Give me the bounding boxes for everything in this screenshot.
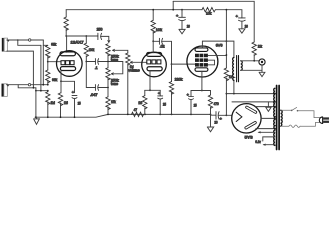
resistor 68k (input 1) xyxy=(46,45,50,58)
resistor 10k (series in rail) xyxy=(202,7,215,11)
wire 100k bottom down to .047 xyxy=(86,62,95,88)
resistor 100k (V1b plate) xyxy=(152,10,154,21)
plate bars 5Y3 xyxy=(246,107,256,128)
svg-text:6V6: 6V6 xyxy=(216,42,223,47)
svg-text:1k: 1k xyxy=(229,74,232,79)
capacitor 250 xyxy=(98,33,102,39)
ground bus right xyxy=(108,113,211,115)
svg-text:15k: 15k xyxy=(111,99,116,104)
capacitor 25 (6V6 cathode) xyxy=(189,97,194,100)
ground symbol (filter A) xyxy=(179,29,185,33)
capacitor 20 (filter B) xyxy=(239,18,246,21)
capacitor 20 (filter A) xyxy=(181,9,183,11)
svg-text:.1: .1 xyxy=(95,65,98,70)
ground bus left xyxy=(35,114,108,117)
svg-text:1M: 1M xyxy=(51,100,56,105)
capacitor 20 (first filter) xyxy=(211,114,217,116)
resistor 22k (feedback) xyxy=(252,42,256,55)
wire 5Y3 plate 2 xyxy=(256,128,275,130)
switch (mains) xyxy=(281,107,321,117)
wire pot column down xyxy=(107,88,109,97)
wiper volume xyxy=(130,61,146,63)
potentiometer 1M volume xyxy=(126,53,130,65)
svg-text:68k: 68k xyxy=(51,41,56,46)
wire B+ top rail left section xyxy=(66,9,202,11)
rectifier tube 5Y3 xyxy=(232,104,261,133)
capacitor .1 xyxy=(95,59,98,65)
wire V1a plate column xyxy=(65,10,67,17)
svg-text:100k: 100k xyxy=(156,27,162,32)
resistor 1k5 (V1b cathode) xyxy=(143,96,147,109)
tube V1b 12AX7 xyxy=(142,52,167,77)
wire 6V6 cathode xyxy=(201,71,203,90)
input jack 1 xyxy=(2,38,48,91)
ground symbol (input bus) xyxy=(34,117,40,124)
filament chevron 5Y3 xyxy=(236,112,242,121)
wire plate node to 250 cap xyxy=(66,35,98,37)
node plate V1a xyxy=(65,35,67,37)
PT secondary loops xyxy=(274,88,275,107)
wiper lower pot xyxy=(111,62,122,74)
wire 5Y3 filament right xyxy=(261,117,275,119)
node 6V6 grid xyxy=(171,63,173,65)
wire B+ to PT xyxy=(226,93,275,95)
resistor screen 1k xyxy=(224,68,228,81)
resistor 68k (input 2) xyxy=(47,62,49,70)
capacitor .047 xyxy=(95,85,98,91)
svg-text:25: 25 xyxy=(194,103,197,108)
wire heater lead 1 xyxy=(258,131,275,133)
resistor 220k (6V6 grid leak) xyxy=(171,64,173,81)
svg-text:220k: 220k xyxy=(175,76,183,81)
AC plug xyxy=(319,117,329,124)
fuse xyxy=(281,123,321,128)
svg-text:5Y3: 5Y3 xyxy=(245,135,253,140)
PT primary loops xyxy=(281,110,283,126)
svg-text:.02: .02 xyxy=(160,44,165,49)
speaker jack xyxy=(259,59,265,65)
wire OT secondary to jack xyxy=(241,60,259,62)
wire screen riser xyxy=(225,10,227,68)
resistor 47 (in bus) xyxy=(132,112,144,116)
wire 6V6 plate to OT xyxy=(202,41,234,57)
svg-text:volume: volume xyxy=(128,68,140,73)
wire top feedback rail xyxy=(173,1,254,42)
resistor 100k plate load V1a xyxy=(64,17,68,30)
wire 250 cap to tone pot top xyxy=(101,36,109,42)
ground symbol (main bus end) xyxy=(207,114,213,131)
svg-text:1k5: 1k5 xyxy=(138,100,142,105)
tube 6V6 xyxy=(187,46,218,77)
svg-text:68k: 68k xyxy=(52,77,57,82)
potentiometer 250k tone (upper) xyxy=(106,44,110,56)
wire heater mid xyxy=(263,137,275,141)
svg-text:47: 47 xyxy=(134,107,138,112)
ground symbol (filter B) xyxy=(239,29,245,33)
svg-text:100k: 100k xyxy=(89,47,95,52)
output transformer xyxy=(233,56,243,82)
capacitor 25 (V1b cathode bypass) xyxy=(158,96,163,99)
wire V1b cathode xyxy=(149,71,151,91)
resistor 1k5 (V1a cathode) xyxy=(58,93,62,106)
svg-text:6.3v: 6.3v xyxy=(255,139,261,144)
ground symbol (HV center) xyxy=(266,102,271,112)
resistor 1M (grid leak input2) xyxy=(47,91,49,92)
resistor 470 (6V6 cathode) xyxy=(208,95,212,108)
node grid V1a xyxy=(47,61,49,63)
svg-text:22k: 22k xyxy=(258,43,262,48)
resistor 100k (V1a) xyxy=(85,36,87,43)
svg-text:12AX7: 12AX7 xyxy=(71,39,84,44)
wire HV upper to PT xyxy=(232,101,275,103)
wire 5Y3 plate 1 xyxy=(255,106,275,108)
PT core xyxy=(277,86,280,150)
svg-text:470: 470 xyxy=(214,101,220,106)
power transformer xyxy=(274,86,283,150)
potentiometer 250k (lower) xyxy=(107,62,109,68)
capacitor .02 (coupling) xyxy=(153,40,159,42)
ground symbol (speaker jack) xyxy=(259,72,265,76)
wire B+ top rail right section xyxy=(215,10,242,18)
svg-text:tone: tone xyxy=(111,81,118,86)
svg-text:1k5: 1k5 xyxy=(64,100,68,105)
capacitor 25 (V1a cathode bypass) xyxy=(72,95,77,98)
wiper tone pot xyxy=(113,50,128,53)
svg-text:250: 250 xyxy=(97,27,104,32)
svg-text:25: 25 xyxy=(163,102,166,107)
input jack 2 xyxy=(2,84,49,97)
wire tone bus y61.5 xyxy=(86,61,95,63)
resistor 15k xyxy=(106,97,110,110)
svg-text:25: 25 xyxy=(78,100,81,105)
svg-text:10k: 10k xyxy=(206,11,211,16)
svg-text:.047: .047 xyxy=(90,92,97,97)
tube V1a 12AX7 xyxy=(57,51,83,77)
wire cathode V1a xyxy=(60,71,62,93)
wire heater lead 2 xyxy=(263,144,275,146)
wire jack ground column xyxy=(35,88,37,117)
